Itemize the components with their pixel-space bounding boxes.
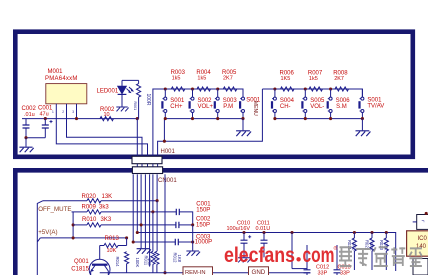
module pin 3 lead xyxy=(76,104,78,119)
junction TV/AV bottom xyxy=(361,117,364,120)
C011 bottom lead xyxy=(263,243,265,257)
junction R021 xyxy=(353,231,356,234)
junction R023 xyxy=(385,231,388,234)
junction C002/ground net xyxy=(191,223,194,226)
connector J2 (right edge) xyxy=(417,215,428,230)
svg-text:1K8: 1K8 xyxy=(177,255,182,263)
resistor R021 (vertical) xyxy=(352,238,356,251)
Q001 base lead xyxy=(99,246,101,260)
R011 leads xyxy=(152,212,154,273)
ground (left keys) xyxy=(236,131,251,136)
svg-text:M001: M001 xyxy=(48,69,64,75)
wire LED to R001 xyxy=(122,79,139,81)
resistor R012 (vertical) xyxy=(155,251,159,264)
junction S004 bottom xyxy=(273,117,276,120)
resistor R005 xyxy=(223,87,236,91)
resistor R001 (100R) xyxy=(137,84,141,97)
left rail drop xyxy=(163,119,165,142)
junction rail/V2 xyxy=(136,231,139,234)
svg-text:CH+: CH+ xyxy=(170,104,183,110)
vertical to crystal area xyxy=(291,233,293,269)
R012 leads xyxy=(156,201,158,273)
svg-text:VOL+: VOL+ xyxy=(198,104,214,110)
junction rail drop xyxy=(163,140,166,143)
junction C002/ground wire xyxy=(24,136,27,139)
caps ground vertical xyxy=(192,225,194,251)
electrolytic capacitor C001 xyxy=(42,125,49,128)
vertical net V8 xyxy=(164,174,166,272)
ground (C010) xyxy=(238,258,251,263)
junction R010 feed xyxy=(72,223,75,226)
switch S007 (MENU) xyxy=(240,89,244,119)
junction S002 bottom xyxy=(191,117,194,120)
resistor R020 xyxy=(87,199,101,203)
resistor R009 xyxy=(87,210,101,214)
svg-text:1k5: 1k5 xyxy=(172,75,181,81)
capacitor C001 150P xyxy=(176,209,179,215)
svg-text:R013: R013 xyxy=(105,236,120,242)
wire OFF_MUTE to R009 xyxy=(72,211,88,213)
switch S004 (CH-) xyxy=(272,89,276,119)
junction C001/main wire xyxy=(44,117,47,120)
svg-text:2K7: 2K7 xyxy=(334,76,344,82)
main supply wire xyxy=(22,118,137,120)
junction S006 tap xyxy=(329,87,332,90)
junction S001 tap xyxy=(164,87,167,90)
switch S003 (P.M) xyxy=(215,89,219,119)
resistor R011 (vertical) xyxy=(151,251,155,264)
electrolytic capacitor C010 xyxy=(241,240,248,243)
+5V(A) wire xyxy=(40,237,126,239)
resistor R013 xyxy=(104,243,118,247)
junction R010/V3 xyxy=(140,223,143,226)
svg-text:OFF_MUTE: OFF_MUTE xyxy=(38,206,71,213)
crystal bottom wire xyxy=(292,268,307,270)
connector below IC001 xyxy=(413,259,428,275)
junction +5V/R013 xyxy=(125,236,128,239)
junction S003 bottom xyxy=(216,117,219,120)
wire R020 to V7 xyxy=(101,200,157,202)
svg-text:H001: H001 xyxy=(161,149,176,155)
junction C003/ground net xyxy=(191,240,194,243)
C012 stem xyxy=(306,245,308,270)
ground (input filter) xyxy=(19,147,33,152)
vertical net V7 xyxy=(156,174,158,200)
svg-text:100K: 100K xyxy=(135,258,140,268)
wire bracket to R020 xyxy=(43,200,87,202)
junction +5V/branch xyxy=(72,236,75,239)
resistor R022 (vertical) xyxy=(370,238,374,251)
resistor R010 xyxy=(87,223,101,227)
svg-text:150P: 150P xyxy=(196,222,210,228)
svg-text:33P: 33P xyxy=(340,270,350,275)
junction S005 bottom xyxy=(304,117,307,120)
svg-text:TV/AV: TV/AV xyxy=(367,103,384,109)
svg-text:1k5: 1k5 xyxy=(309,76,318,82)
vertical net V1 xyxy=(132,174,134,242)
IC001 body xyxy=(407,231,428,256)
vertical OFF_MUTE branch xyxy=(72,212,74,238)
C002 top lead xyxy=(25,119,27,125)
R021 top lead xyxy=(353,233,355,239)
capacitor C011 xyxy=(261,240,268,243)
junction V1/C003 row xyxy=(132,240,135,243)
left keys top rail xyxy=(153,89,243,157)
port GND xyxy=(249,267,269,275)
R021 bottom lead xyxy=(353,251,355,270)
svg-text:1K8: 1K8 xyxy=(147,258,152,266)
svg-text:100R: 100R xyxy=(145,94,151,106)
ground stem right keys xyxy=(361,119,363,131)
junction xtal drop xyxy=(290,231,293,234)
svg-text:P.M: P.M xyxy=(223,104,233,110)
capacitor C013 xyxy=(334,270,341,273)
ground (right keys) xyxy=(356,131,371,136)
svg-text:LED001: LED001 xyxy=(97,89,119,95)
ground wire C001-C002 xyxy=(26,137,45,139)
junction S005 tap xyxy=(304,87,307,90)
svg-text:IC0: IC0 xyxy=(418,236,428,242)
junction R022 xyxy=(370,231,373,234)
svg-text:®: ® xyxy=(334,245,338,252)
capacitor C002 150P xyxy=(176,222,179,228)
vertical net V4 xyxy=(144,174,146,248)
resistor R007 xyxy=(309,87,322,91)
junction C010 xyxy=(242,231,245,234)
interconnect wire to right rail xyxy=(158,89,263,157)
svg-text:VOL-: VOL- xyxy=(310,104,324,110)
wire R009 to C001 xyxy=(101,211,176,213)
resistor R004 xyxy=(197,87,210,91)
resistor R008 xyxy=(335,87,348,91)
R022 bottom lead xyxy=(371,251,373,270)
R023 top lead xyxy=(385,233,387,239)
right keys bottom rail xyxy=(275,118,363,120)
bottom signal rail xyxy=(100,272,310,274)
svg-text:R023: R023 xyxy=(379,240,384,251)
resistor R006 xyxy=(281,87,294,91)
svg-text:0.01U: 0.01U xyxy=(256,226,271,232)
svg-text:+5V(A): +5V(A) xyxy=(38,229,57,236)
svg-text:elecfans: elecfans xyxy=(224,244,295,267)
svg-text:1K5: 1K5 xyxy=(281,76,291,82)
resistor R023 (vertical) xyxy=(384,238,388,251)
ground stem left keys xyxy=(242,119,244,131)
port REM-IN xyxy=(183,267,213,275)
svg-text:3K3: 3K3 xyxy=(351,243,356,251)
svg-text:3: 3 xyxy=(72,110,74,114)
vertical net V2 xyxy=(136,174,138,232)
C001 right lead xyxy=(179,212,192,225)
wire V1 to C003 xyxy=(133,241,175,243)
R023 bottom lead xyxy=(385,251,387,270)
svg-text:2K7: 2K7 xyxy=(223,75,233,81)
ground (logic) xyxy=(137,249,151,254)
C002 right lead xyxy=(179,224,193,226)
watermark chinese characters xyxy=(339,247,352,266)
junction S003 tap xyxy=(216,87,219,90)
resistor R002 xyxy=(100,117,113,121)
svg-text:com: com xyxy=(303,244,335,267)
svg-text:47u: 47u xyxy=(40,111,49,117)
svg-text:R012: R012 xyxy=(173,253,178,264)
svg-text:3k3: 3k3 xyxy=(99,205,109,211)
junction MENU bottom xyxy=(241,117,244,120)
svg-text:C1815: C1815 xyxy=(71,266,89,272)
right keys top rail xyxy=(262,89,362,97)
module M001 body xyxy=(46,84,87,104)
switch S008 (TV/AV) xyxy=(360,89,364,119)
capacitor C012 xyxy=(304,270,311,273)
svg-text:R009: R009 xyxy=(82,205,97,211)
svg-text:1k5: 1k5 xyxy=(197,75,206,81)
junction pin3/main wire xyxy=(75,117,78,120)
svg-text:2: 2 xyxy=(62,110,64,114)
svg-text:R001: R001 xyxy=(133,102,137,111)
module pin 1 lead xyxy=(55,104,57,119)
svg-text:1000P: 1000P xyxy=(195,240,212,246)
off-page port bracket xyxy=(37,201,43,275)
svg-text:33P: 33P xyxy=(318,270,328,275)
capacitor C002 xyxy=(23,125,30,128)
C002 bottom lead xyxy=(25,128,27,138)
svg-text:CN001: CN001 xyxy=(158,178,177,184)
bottom schematic section border xyxy=(15,170,428,275)
top schematic section border xyxy=(15,32,413,157)
switch S001 (CH+) xyxy=(162,89,166,119)
resistor R003 xyxy=(171,87,184,91)
svg-text:MENU: MENU xyxy=(252,101,258,116)
svg-text:R014: R014 xyxy=(115,257,120,268)
R013 right lead drop xyxy=(126,238,128,246)
C003 right lead xyxy=(178,241,192,243)
vertical net V5 xyxy=(149,174,151,266)
svg-text:Q001: Q001 xyxy=(74,259,89,265)
vertical net V3 xyxy=(140,174,142,248)
svg-text:CH-: CH- xyxy=(280,104,291,110)
wire R001 to connector xyxy=(136,119,138,157)
junction C011 xyxy=(262,231,265,234)
ground (caps) xyxy=(186,251,200,256)
connector pin stubs xyxy=(137,163,157,168)
header H001 body xyxy=(132,156,162,163)
C012 bottom xyxy=(306,273,308,275)
svg-text:100u/16V: 100u/16V xyxy=(227,226,251,232)
transistor Q001 xyxy=(89,259,110,275)
svg-text:R010: R010 xyxy=(82,217,97,223)
svg-text:.01u: .01u xyxy=(24,112,35,118)
C001 top lead xyxy=(44,119,46,125)
module pin 2 lead xyxy=(66,104,68,119)
ground (LED) xyxy=(116,107,128,111)
left keys bottom rail xyxy=(164,118,243,120)
R022 top lead xyxy=(371,233,373,239)
junction V8/bottom rail xyxy=(163,271,166,274)
switch S006 (S.M) xyxy=(328,89,332,119)
wire R010 to C002 xyxy=(101,224,176,226)
vertical net V6 xyxy=(152,174,154,212)
wire pin1 to connector xyxy=(56,119,147,157)
C010 top lead xyxy=(243,233,245,241)
svg-text:150P: 150P xyxy=(196,208,210,214)
junction S002 tap xyxy=(191,87,194,90)
junction S001 bottom xyxy=(164,117,167,120)
R014 bottom lead xyxy=(126,264,128,273)
mid supply rail xyxy=(137,233,395,272)
junction R001 bottom xyxy=(136,117,139,120)
svg-text:10K: 10K xyxy=(107,248,117,254)
wire pin2 to connector xyxy=(67,119,143,157)
C010 bottom lead xyxy=(243,243,245,257)
connector CN001 body xyxy=(132,167,162,174)
C013 bottom xyxy=(336,273,338,275)
junction R020/V7 xyxy=(156,199,159,202)
svg-text:S.M: S.M xyxy=(336,104,347,110)
junction S004 tap xyxy=(273,87,276,90)
svg-text:PMA64xxM: PMA64xxM xyxy=(45,76,78,82)
wire to R010 xyxy=(73,224,87,226)
ground stem xyxy=(25,138,27,147)
C013 stem xyxy=(336,245,338,270)
resistor R014 (vertical) xyxy=(125,252,129,264)
C011 top lead xyxy=(263,233,265,241)
svg-text:¬: ¬ xyxy=(422,219,425,225)
junction J2 top xyxy=(425,212,428,215)
junction R009/V6 xyxy=(151,210,154,213)
J2 stub xyxy=(413,221,417,223)
svg-text:3K3: 3K3 xyxy=(101,217,112,223)
svg-text:GND: GND xyxy=(252,269,266,275)
R013 row wire xyxy=(100,245,127,247)
R001 leads xyxy=(138,80,140,118)
svg-text:REM-IN: REM-IN xyxy=(185,270,206,275)
junction S006 bottom xyxy=(329,117,332,120)
C001 bottom lead xyxy=(44,128,46,138)
LED001 diode xyxy=(118,80,133,106)
switch S002 (VOL+) xyxy=(190,89,194,119)
switch S005 (VOL-) xyxy=(302,89,306,119)
svg-text:13K: 13K xyxy=(102,194,113,200)
capacitor C003 1000P xyxy=(175,239,178,245)
